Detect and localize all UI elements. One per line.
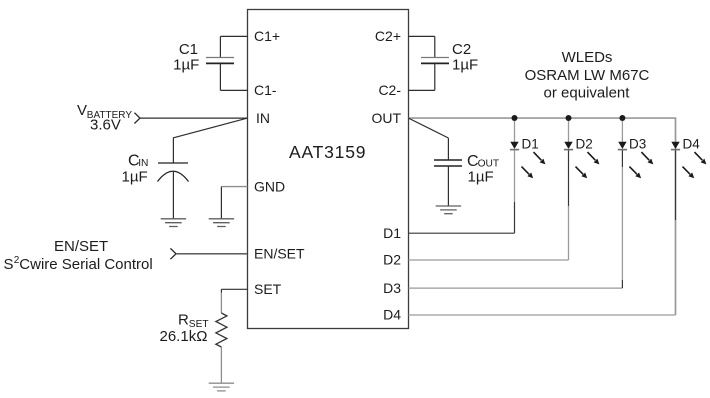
svg-text:C1+: C1+ — [254, 28, 280, 44]
ground under RSET — [209, 383, 234, 391]
wire CIN top vertical — [172, 138, 174, 164]
wire OUT rail — [409, 118, 676, 315]
wire D4 riser — [675, 220, 677, 315]
node junction dot D2 — [566, 115, 572, 121]
node junction dot D1 — [512, 115, 518, 121]
node EN/SET input connector — [170, 248, 176, 259]
svg-text:C2+: C2+ — [375, 28, 401, 44]
ground under CIN — [161, 219, 186, 227]
WLED note text — [525, 49, 650, 101]
LED D1 — [510, 118, 546, 178]
wire D2 riser — [568, 206, 570, 260]
svg-text:1µF: 1µF — [452, 56, 478, 73]
wire C2 top vertical — [434, 36, 436, 57]
resistor RSET — [160, 311, 227, 347]
wire COUT to ground — [447, 166, 449, 206]
svg-text:3.6V: 3.6V — [90, 116, 121, 133]
svg-text:C2-: C2- — [378, 82, 401, 98]
wire C2 bottom vertical — [434, 63, 436, 90]
svg-text:D2: D2 — [383, 252, 401, 268]
wire CIN to ground — [172, 172, 174, 219]
wire C2+ pin — [409, 35, 435, 37]
svg-text:or equivalent: or equivalent — [544, 84, 631, 101]
wire IN to CIN diagonal — [173, 118, 247, 138]
wire C1 bottom vertical — [219, 63, 221, 90]
svg-text:AAT3159: AAT3159 — [289, 142, 366, 162]
wire D3 pin — [409, 287, 623, 289]
svg-text:D3: D3 — [629, 137, 646, 152]
svg-text:D1: D1 — [383, 225, 401, 241]
svg-text:EN/SET: EN/SET — [54, 238, 108, 255]
wire GND pin — [221, 186, 247, 188]
svg-text:R: R — [178, 311, 189, 328]
EN/SET control labels — [4, 238, 153, 273]
wire C1+ pin — [220, 35, 247, 37]
node junction dot D3 — [619, 115, 625, 121]
svg-text:D2: D2 — [576, 137, 593, 152]
svg-text:D3: D3 — [383, 280, 401, 296]
wire D1 pin — [409, 232, 515, 234]
svg-text:OSRAM LW M67C: OSRAM LW M67C — [525, 67, 650, 84]
LED D4 — [671, 118, 707, 178]
svg-text:26.1kΩ: 26.1kΩ — [160, 328, 208, 345]
capacitor COUT — [434, 153, 499, 185]
svg-text:GND: GND — [254, 178, 285, 194]
svg-text:SET: SET — [254, 281, 282, 297]
capacitor C1 — [173, 41, 234, 73]
svg-text:C1-: C1- — [254, 82, 277, 98]
svg-text:IN: IN — [256, 110, 270, 126]
svg-text:EN/SET: EN/SET — [254, 245, 305, 261]
svg-text:1µF: 1µF — [173, 56, 199, 73]
svg-text:1µF: 1µF — [122, 168, 148, 185]
LED D3 — [618, 118, 654, 178]
svg-text:S: S — [4, 256, 14, 273]
svg-text:D1: D1 — [522, 137, 539, 152]
wire C1- pin — [220, 89, 247, 91]
svg-text:OUT: OUT — [371, 110, 401, 126]
wire COUT top vertical — [447, 138, 449, 160]
IC U1 AAT3159 body — [248, 10, 409, 329]
wire D1 riser — [514, 202, 516, 233]
wire C2- pin — [409, 89, 435, 91]
capacitor CIN — [122, 153, 189, 186]
wire SET pin — [221, 288, 247, 290]
wire C1 top vertical — [219, 36, 221, 57]
wire VBATTERY to IN — [140, 117, 248, 119]
VBATTERY label — [77, 102, 132, 133]
svg-text:D4: D4 — [383, 307, 401, 323]
capacitor C2 — [421, 41, 478, 73]
wire RSET to ground — [220, 347, 222, 383]
wire SET vertical — [220, 289, 222, 292]
node VBATTERY input connector — [134, 113, 140, 124]
wire EN/SET to pin — [176, 253, 248, 255]
svg-text:Cwire Serial Control: Cwire Serial Control — [19, 256, 152, 273]
wire D2 pin — [409, 259, 569, 261]
wire D3 riser — [621, 280, 623, 288]
ground under GND pin — [209, 219, 234, 227]
svg-text:WLEDs: WLEDs — [562, 49, 613, 66]
svg-text:D4: D4 — [683, 137, 701, 152]
wire GND vertical — [220, 187, 222, 219]
svg-text:V: V — [77, 102, 87, 119]
LED D2 — [564, 118, 600, 178]
wire D4 pin — [409, 314, 676, 316]
wire OUT to COUT diagonal — [409, 118, 449, 138]
svg-text:1µF: 1µF — [468, 168, 494, 185]
ground under COUT — [436, 206, 461, 214]
